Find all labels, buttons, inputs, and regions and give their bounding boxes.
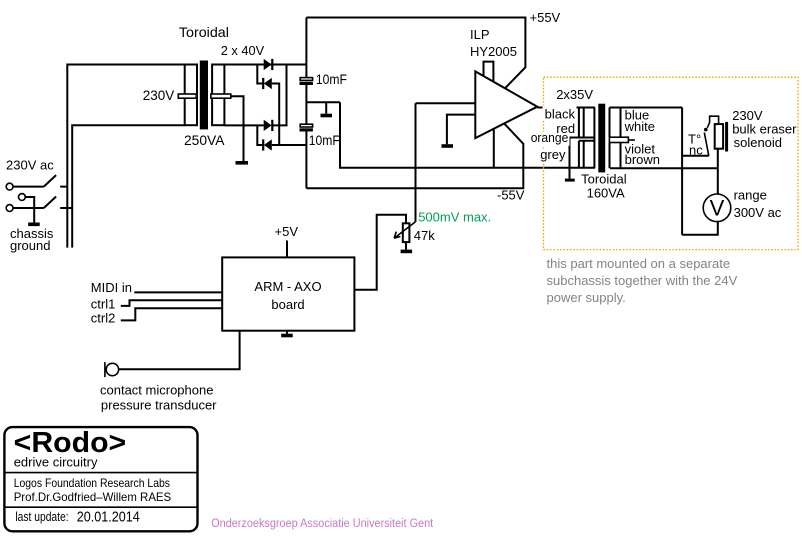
- svg-text:grey: grey: [540, 147, 566, 162]
- wire mains L up to transformer primary top: [67, 65, 184, 248]
- wire board to contact microphone: [119, 331, 240, 370]
- switch S1a (mains L): [13, 175, 67, 187]
- wire D2 anode to minus rail: [272, 84, 279, 146]
- transformer T1 secondary winding: [212, 65, 224, 126]
- transformer T1 primary winding: [185, 65, 197, 126]
- diode D3: [264, 120, 274, 131]
- contact microphone symbol: [105, 362, 119, 377]
- wire C1 bottom to mid node: [305, 85, 307, 124]
- wire pot bottom to ground: [405, 242, 407, 250]
- svg-text:ctrl2: ctrl2: [91, 311, 116, 326]
- ground symbol at U1 input: [442, 144, 454, 148]
- potentiometer wiper arrow: [394, 222, 415, 238]
- wire brown bottom to solenoid: [610, 167, 718, 169]
- bulk eraser solenoid coil: [715, 124, 723, 149]
- svg-text:edrive circuitry: edrive circuitry: [14, 455, 98, 470]
- svg-text:20.01.2014: 20.01.2014: [77, 509, 140, 526]
- wire ctrl1: [121, 300, 222, 306]
- T2 primary winding 1 (black/red): [570, 108, 595, 169]
- svg-text:ground: ground: [10, 238, 50, 253]
- wire earth pin to chassis ground: [26, 197, 35, 223]
- diode D2: [262, 78, 272, 89]
- svg-text:last update:: last update:: [15, 509, 68, 524]
- svg-text:2 x 40V: 2 x 40V: [221, 43, 265, 58]
- T2 centre tap stub: [628, 139, 635, 141]
- svg-text:+55V: +55V: [530, 10, 561, 25]
- wire voltmeter bottom loop: [682, 222, 718, 235]
- wire grounded input of U1: [447, 115, 475, 145]
- svg-text:10mF: 10mF: [309, 132, 340, 148]
- title block divider 1: [4, 472, 197, 474]
- svg-text:HY2005: HY2005: [470, 44, 517, 59]
- ground symbol at T1 centre tap: [236, 161, 249, 165]
- svg-text:pressure transducer: pressure transducer: [101, 398, 217, 413]
- svg-text:nc: nc: [689, 143, 703, 158]
- svg-text:V: V: [710, 196, 725, 221]
- wire red down to ground: [569, 138, 571, 179]
- svg-text:10mF: 10mF: [316, 71, 347, 87]
- svg-text:Prof.Dr.Godfried–Willem RAES: Prof.Dr.Godfried–Willem RAES: [14, 490, 172, 504]
- svg-text:Logos Foundation Research Labs: Logos Foundation Research Labs: [14, 476, 170, 490]
- yellow subchassis outline: [544, 77, 799, 249]
- wire +55V rail: [306, 18, 525, 89]
- svg-text:500mV max.: 500mV max.: [418, 210, 491, 225]
- transformer T1 secondary centre tap bar: [211, 94, 231, 98]
- ground symbol under board: [281, 334, 293, 338]
- diode D4: [262, 139, 272, 150]
- wire ground stub at mid node: [325, 102, 327, 114]
- svg-text:250VA: 250VA: [184, 132, 225, 148]
- thermal switch contact dot: [704, 128, 708, 132]
- wire stub node B down to D4: [257, 125, 262, 145]
- wire mid node 0V: [306, 101, 340, 103]
- potentiometer 47k body: [403, 223, 410, 242]
- wire 0V node down and right to T2 grey: [340, 102, 595, 168]
- svg-text:ctrl1: ctrl1: [91, 297, 116, 312]
- op-amp U1 ILP HY2005 triangle: [475, 71, 537, 138]
- solenoid core bar: [725, 122, 728, 152]
- svg-text:ILP: ILP: [470, 27, 490, 42]
- capacitor C1 10mF: [300, 78, 313, 85]
- wire blue to thermal switch: [682, 155, 709, 157]
- transformer T1 core: [200, 61, 208, 130]
- svg-text:MIDI in: MIDI in: [91, 280, 132, 295]
- svg-text:Onderzoeksgroep Associatie Uni: Onderzoeksgroep Associatie Universiteit …: [211, 518, 434, 530]
- svg-text:+5V: +5V: [275, 224, 299, 239]
- wire stub node A down to D2: [257, 65, 262, 84]
- ground symbol at mid node: [321, 114, 333, 118]
- wire -55V rail: [306, 124, 523, 189]
- wire U1 ground pin to 0V line: [493, 129, 495, 168]
- ground symbol at T2 primary: [565, 179, 575, 182]
- wire U1 input down to pot wiper: [415, 103, 417, 222]
- wire secondary bottom to D3: [224, 124, 263, 126]
- svg-text:black: black: [545, 107, 576, 122]
- wire U1 output to T2: [537, 107, 595, 109]
- svg-text:this part mounted on a separat: this part mounted on a separate: [547, 256, 731, 271]
- title block frame: [4, 427, 197, 531]
- wire switch top contact to solenoid: [707, 116, 718, 128]
- T2 secondary winding 3 (blue/white): [610, 108, 683, 138]
- wire board ground stub: [286, 331, 288, 334]
- wire ctrl2: [121, 308, 222, 320]
- title block divider 2: [4, 506, 197, 508]
- ground symbol at pot: [401, 250, 413, 254]
- wire centre tap to ground: [231, 96, 244, 161]
- wire pot top to ARM board output: [354, 215, 406, 290]
- svg-text:230V: 230V: [143, 87, 175, 103]
- ARM-AXO board box: [222, 257, 354, 330]
- wire C2 bottom down to -55V corner: [305, 132, 307, 189]
- svg-text:300V ac: 300V ac: [734, 205, 782, 220]
- connector pin E: [19, 194, 26, 201]
- svg-text:subchassis together with the 2: subchassis together with the 24V: [547, 273, 738, 288]
- T2 primary winding 2 (orange/grey): [579, 141, 595, 168]
- connector pin L: [6, 183, 13, 190]
- chassis ground symbol: [28, 223, 40, 227]
- wire D3 cathode up to +node: [272, 65, 287, 126]
- svg-text:160VA: 160VA: [587, 186, 625, 201]
- op-amp U1 mounting tab: [484, 62, 494, 82]
- wire input to U1: [416, 102, 476, 104]
- svg-text:orange: orange: [531, 130, 569, 145]
- diode D1: [264, 59, 274, 70]
- transformer T1 primary 230V tap bar: [178, 94, 196, 98]
- thermal switch blade: [704, 133, 709, 156]
- wire secondary top to +rail: [224, 64, 306, 66]
- svg-text:ARM - AXO: ARM - AXO: [254, 279, 321, 294]
- wire MIDI in: [134, 291, 222, 293]
- svg-text:range: range: [734, 188, 767, 203]
- svg-text:board: board: [271, 297, 304, 312]
- wire mains N up to transformer primary bottom: [72, 125, 185, 247]
- T2 secondary centre tap: [609, 137, 628, 142]
- svg-text:contact microphone: contact microphone: [100, 383, 213, 398]
- wire blue down to switch and meter loop: [681, 108, 683, 235]
- svg-text:-55V: -55V: [497, 188, 525, 203]
- svg-text:solenoid: solenoid: [734, 135, 782, 150]
- wire +rail vertical: [305, 18, 307, 78]
- wire +5V stub: [286, 241, 288, 258]
- label background patches: [529, 106, 577, 164]
- svg-text:47k: 47k: [414, 228, 435, 243]
- svg-text:white: white: [624, 119, 655, 134]
- connector pin N: [6, 205, 13, 212]
- svg-text:Toroidal: Toroidal: [581, 172, 627, 187]
- svg-text:230V ac: 230V ac: [6, 158, 54, 173]
- wire solenoid bottom to voltmeter: [717, 149, 719, 194]
- svg-text:2x35V: 2x35V: [556, 87, 593, 102]
- voltmeter V: [703, 194, 731, 222]
- wire D4 anode to -55V rail: [272, 144, 307, 146]
- T2 secondary winding 4 (violet/brown): [610, 143, 621, 169]
- transformer T2 core: [598, 104, 605, 173]
- capacitor C2 10mF: [300, 124, 313, 131]
- svg-text:brown: brown: [625, 152, 660, 167]
- svg-text:Toroidal: Toroidal: [179, 24, 229, 40]
- svg-text:power supply.: power supply.: [547, 290, 626, 305]
- switch S1b (mains N): [13, 197, 72, 209]
